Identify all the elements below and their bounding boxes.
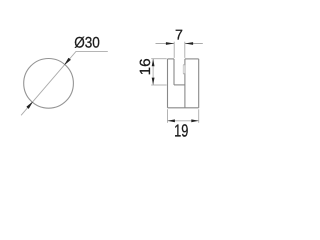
gasket pad in slot (183, 64, 185, 74)
dim 7 lines (156, 42, 203, 58)
bottom edge (168, 107, 199, 109)
slot right wall / inner seam (184, 59, 186, 108)
dim 7 arrows (166, 42, 174, 45)
svg-text:7: 7 (175, 28, 183, 44)
circle (front view of clamp, Ø30) (24, 59, 74, 109)
svg-text:19: 19 (174, 120, 188, 140)
left edge (167, 59, 169, 108)
svg-text:Ø30: Ø30 (74, 34, 100, 51)
arrow lower-left on circle (27, 102, 33, 109)
gasket pad end ticks (183, 65, 185, 74)
arrow upper-right on circle (65, 58, 71, 65)
top edge right block (185, 58, 199, 60)
svg-text:16: 16 (138, 58, 154, 75)
dim 19 lines (168, 109, 199, 123)
slot left wall (173, 59, 175, 85)
side view outline (168, 59, 199, 108)
diameter leader line (21, 51, 108, 115)
slot bottom (174, 84, 185, 86)
dim 16 arrows (152, 59, 155, 66)
dim 16 lines (151, 59, 167, 85)
dim 19 arrows (168, 119, 175, 122)
top edge left wall (168, 58, 175, 60)
right edge (198, 59, 200, 108)
